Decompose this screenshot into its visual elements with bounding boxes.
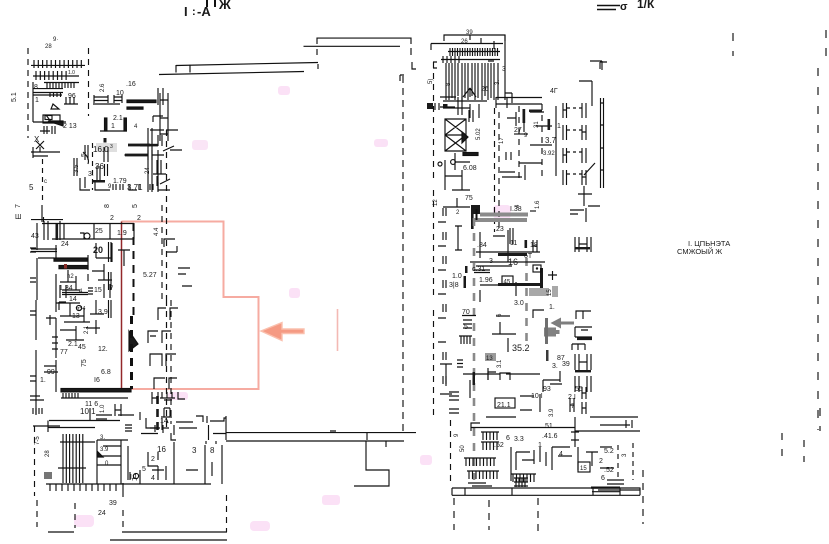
svg-text:І6: І6 [94, 377, 100, 384]
wall line [33, 121, 66, 123]
door wedge solid [48, 121, 63, 126]
svg-text:75: 75 [465, 195, 473, 202]
corridor right-side brackets [146, 239, 192, 430]
svg-text:8: 8 [210, 446, 215, 455]
svg-text:9·: 9· [53, 37, 58, 43]
left edge details mid [31, 141, 63, 240]
room partitions [470, 230, 545, 266]
svg-text:16: 16 [508, 257, 518, 267]
east window symbols [563, 103, 586, 118]
door frame marks above [160, 392, 185, 399]
black door wedge big [129, 331, 138, 351]
svg-text:39: 39 [562, 361, 570, 368]
svg-text:3.9: 3.9 [549, 408, 555, 417]
svg-text:2.6: 2.6 [100, 83, 106, 92]
window double lines on left [30, 248, 36, 282]
svg-text:75: 75 [81, 359, 88, 367]
svg-text:2: 2 [599, 458, 603, 465]
svg-text:6: 6 [601, 475, 605, 482]
left window ticks [45, 472, 51, 479]
top walls [590, 417, 638, 428]
top row walls [440, 97, 473, 122]
svg-text:39: 39 [466, 30, 473, 36]
thick dashed wall [130, 316, 133, 389]
svg-text:1: 1 [35, 97, 39, 104]
right plan 35.2 hall [457, 343, 591, 417]
svg-text:70: 70 [462, 309, 470, 316]
svg-text:5): 5) [428, 79, 434, 84]
svg-text:12.: 12. [98, 346, 108, 353]
svg-text:.16: .16 [126, 81, 136, 88]
svg-text:55: 55 [575, 386, 583, 393]
svg-text:25: 25 [95, 228, 103, 235]
far right wall [579, 61, 602, 106]
svg-text:28: 28 [45, 44, 52, 50]
right plan gray dashed walls [474, 218, 527, 480]
svg-text:1: 1 [538, 442, 542, 449]
title right plan [597, 0, 655, 13]
svg-text:3.92: 3.92 [543, 151, 555, 157]
small comb [459, 336, 472, 344]
svg-text:3.71: 3.71 [127, 183, 143, 192]
right plan middle rooms [449, 206, 592, 352]
svg-text:1: 1 [557, 123, 561, 130]
svg-text:7-5: 7-5 [35, 436, 41, 445]
svg-text:3.9: 3.9 [100, 447, 109, 453]
svg-text:-А: -А [197, 4, 211, 19]
svg-text:1.9: 1.9 [117, 230, 127, 237]
window symbols right side [160, 93, 168, 141]
hatch band [61, 393, 128, 398]
svg-text:77: 77 [60, 349, 68, 356]
thick bottom bar [61, 389, 131, 392]
svg-text:3.1: 3.1 [497, 359, 503, 368]
svg-text:20: 20 [93, 245, 103, 255]
walls below stairs [443, 97, 542, 118]
svg-text:16.0: 16.0 [93, 145, 109, 154]
thick wall bar A [54, 258, 87, 261]
dashed boundary left [27, 48, 29, 138]
bracket row thick [92, 180, 105, 183]
svg-text:16: 16 [157, 445, 166, 454]
svg-text::: : [192, 6, 196, 18]
dashed boundary right [88, 48, 90, 116]
svg-text:8: 8 [34, 84, 38, 91]
svg-text:10: 10 [116, 90, 124, 97]
svg-text:.51: .51 [543, 423, 553, 430]
svg-text:36: 36 [95, 162, 104, 171]
big room dashed right wall [402, 76, 404, 434]
svg-text:26: 26 [481, 86, 489, 93]
top wall of rooms [42, 223, 134, 225]
window double lines [30, 311, 36, 381]
step outline below bottom wall [354, 442, 389, 487]
svg-text:σ: σ [620, 1, 628, 13]
corridor dashed verticals [494, 108, 496, 232]
svg-text:c: c [44, 179, 47, 185]
gray blob below arrow [544, 328, 560, 337]
door swing [51, 104, 59, 109]
bottom small rooms [511, 447, 540, 481]
left boundary walls [37, 205, 42, 300]
left plan mid rooms band [30, 205, 160, 325]
svg-text:3: 3 [110, 144, 113, 150]
svg-text:5: 5 [29, 183, 34, 192]
red region left edge dark [121, 222, 123, 390]
upper row above wing [90, 396, 158, 432]
right plan upper rooms [433, 61, 604, 232]
svg-text:.52: .52 [494, 442, 504, 449]
door posts [115, 404, 121, 416]
svg-text:7: 7 [571, 403, 575, 410]
left plan center room labels [15, 138, 174, 222]
svg-text:26: 26 [461, 39, 468, 45]
svg-text:І: І [184, 4, 188, 19]
svg-text:5.2: 5.2 [604, 448, 614, 455]
svg-text:1.0: 1.0 [100, 404, 106, 413]
stair comb narrow [441, 48, 500, 60]
svg-text:1: 1 [111, 123, 115, 130]
svg-text:50: 50 [460, 445, 466, 452]
svg-text:15: 15 [580, 466, 587, 472]
svg-text:35.2: 35.2 [512, 343, 530, 353]
dashed west boundary [34, 426, 36, 496]
corner marks right of big room [400, 62, 416, 81]
bottom outline [37, 495, 227, 532]
east windows [575, 237, 591, 252]
dense comb above bar [514, 478, 528, 487]
svg-text:2 13: 2 13 [63, 123, 77, 130]
big room bottom wall ticks [366, 433, 368, 440]
svg-text:21.1: 21.1 [497, 402, 511, 409]
svg-text:3|8: 3|8 [449, 282, 459, 289]
stair comb lower [33, 71, 79, 80]
entry black block [427, 103, 433, 109]
labels [40, 306, 111, 416]
svg-text:2: 2 [151, 456, 155, 463]
svg-text:3.5: 3.5 [74, 164, 80, 173]
right plan top bracket [427, 30, 558, 180]
svg-text:96: 96 [68, 93, 76, 100]
svg-text:4Г: 4Г [550, 88, 558, 95]
left edge combs [449, 392, 459, 413]
svg-text:ІД: ІД [130, 474, 137, 481]
tall stair hatch [58, 434, 95, 483]
svg-text:2.1: 2.1 [113, 115, 123, 122]
svg-text:1.96: 1.96 [479, 277, 493, 284]
svg-text:14: 14 [160, 418, 168, 425]
door ticks [60, 284, 110, 298]
svg-text:3.9: 3.9 [98, 309, 108, 316]
top rails [48, 421, 120, 433]
mid fittings [533, 310, 591, 319]
svg-text:3.: 3. [552, 363, 558, 370]
svg-text:с.31: с.31 [472, 266, 485, 273]
thick wall bar B [59, 266, 88, 269]
svg-text:1.0: 1.0 [452, 273, 462, 280]
big room top wall double line [176, 63, 318, 66]
top dimension bracket [317, 38, 411, 44]
svg-text:31: 31 [534, 121, 540, 128]
svg-text:1/К: 1/К [637, 0, 655, 11]
box with dot [533, 265, 541, 272]
svg-text:3: 3 [192, 446, 197, 455]
svg-text:ø54: ø54 [76, 306, 85, 312]
small partitions [56, 245, 80, 296]
svg-text:3.: 3. [88, 171, 94, 178]
faint red vertical line [337, 309, 339, 351]
svg-text:1.34: 1.34 [59, 285, 73, 292]
underlined 27 [514, 133, 528, 135]
gray highlight behind 16.0 [96, 143, 117, 152]
svg-text:5.: 5. [81, 151, 88, 157]
svg-text:8: 8 [104, 204, 111, 208]
gray fill patches [529, 288, 549, 296]
svg-text:43: 43 [31, 233, 39, 240]
rooms right of stairs [97, 440, 128, 484]
stair comb upper [31, 60, 85, 68]
svg-text:Ш: Ш [15, 214, 21, 221]
convergence diagonals [463, 88, 476, 97]
right plan bottom rooms [449, 392, 643, 532]
labels [31, 227, 160, 303]
east wall double line [601, 98, 604, 188]
right plan gray sill bars [471, 205, 536, 229]
right edge wall [505, 35, 512, 103]
svg-text:Ж: Ж [218, 0, 231, 12]
svg-text:3.3: 3.3 [514, 436, 524, 443]
svg-text:2.І: 2.І [568, 394, 576, 401]
stair rails [44, 82, 79, 84]
svg-text:3.7: 3.7 [545, 136, 557, 145]
svg-text:3.0: 3.0 [514, 300, 524, 307]
small box 45 [502, 276, 513, 285]
ground long bar [452, 488, 640, 496]
mini stair [64, 97, 78, 104]
right margin dashes [600, 30, 826, 462]
stair combs [481, 432, 499, 440]
svg-text:1.: 1. [549, 304, 555, 311]
salmon arrow [261, 323, 304, 341]
svg-text:13: 13 [486, 356, 493, 362]
svg-text:14: 14 [69, 296, 77, 303]
svg-text:1.6: 1.6 [535, 200, 541, 209]
svg-text:17: 17 [499, 137, 505, 144]
svg-text:6Т: 6Т [524, 253, 533, 260]
wall segments [176, 416, 226, 423]
svg-text:.52: .52 [604, 467, 614, 474]
pier column [109, 242, 112, 318]
title left plan [184, 0, 231, 19]
svg-text:2.1: 2.1 [68, 341, 78, 348]
svg-text:.41.6: .41.6 [542, 433, 558, 440]
svg-text:18: 18 [530, 242, 538, 249]
pink smudges [74, 86, 511, 531]
svg-text:2.1: 2.1 [84, 325, 90, 334]
svg-text:2: 2 [137, 215, 141, 222]
svg-text:45: 45 [78, 344, 86, 351]
svg-text:24: 24 [145, 167, 151, 174]
red region outline [122, 222, 259, 390]
svg-text:6: 6 [506, 435, 510, 442]
tall stair flight [446, 63, 498, 100]
wc fixture [84, 233, 90, 239]
svg-text:.84: .84 [477, 242, 487, 249]
svg-text:11: 11 [510, 240, 517, 247]
small box with cross [43, 115, 60, 123]
svg-text:27: 27 [514, 127, 522, 134]
labels [454, 423, 628, 482]
svg-text:3.: 3. [495, 80, 501, 85]
boxed 211 [495, 398, 515, 408]
diagonals [158, 146, 174, 190]
small combs left [30, 396, 44, 414]
svg-text:24: 24 [98, 510, 106, 517]
thick partition bars [498, 253, 527, 256]
basement text [677, 239, 730, 256]
labels [486, 343, 583, 417]
bottom wing [35, 418, 228, 540]
svg-text:15: 15 [94, 287, 102, 294]
crossed box ventilation shafts [445, 119, 466, 151]
left plan top stair block [11, 37, 89, 144]
boundary [36, 296, 56, 415]
labels [433, 121, 561, 209]
svg-text:4: 4 [151, 475, 155, 482]
svg-text:h2: h2 [67, 274, 74, 280]
labels [428, 30, 558, 95]
bottom rail and comb [46, 483, 211, 485]
bottom wing top boundary [33, 392, 416, 446]
svg-text:28: 28 [45, 450, 51, 457]
svg-text:2: 2 [110, 215, 114, 222]
svg-text:3.: 3. [100, 435, 105, 441]
svg-text:1.79: 1.79 [113, 178, 127, 185]
left plan lower rooms band [30, 223, 138, 416]
svg-text:5: 5 [464, 324, 468, 331]
70 underline and bars [462, 316, 476, 329]
circle fixture [76, 305, 81, 310]
gray arrow right plan [551, 318, 575, 329]
svg-text:5.1: 5.1 [11, 92, 18, 102]
svg-text:5: 5 [142, 466, 146, 473]
below dashed [454, 470, 643, 532]
thick sill bars [128, 144, 150, 147]
bottom wall of room row [52, 238, 134, 240]
thick sill [463, 153, 478, 156]
partitions [56, 303, 90, 322]
svg-text:1.0: 1.0 [68, 70, 75, 76]
svg-text:10.І: 10.І [531, 393, 543, 400]
svg-text:4: 4 [559, 451, 563, 458]
svg-text:15: 15 [547, 289, 553, 296]
left plan corridor dashed wall [162, 130, 171, 428]
left plan window row upper middle [93, 81, 208, 192]
svg-text:93: 93 [543, 386, 551, 393]
svg-text:24: 24 [61, 241, 69, 248]
svg-text:4.4: 4.4 [154, 227, 160, 236]
plus mark [548, 271, 557, 280]
svg-text:3: 3 [489, 258, 493, 265]
vertical pair symbols [74, 145, 108, 180]
room partitions [507, 106, 556, 176]
svg-text:23: 23 [496, 226, 504, 233]
gray dashed wall segment [545, 318, 548, 344]
svg-text:5: 5 [132, 204, 139, 208]
svg-text:10.1: 10.1 [80, 407, 96, 416]
room divider walls [64, 224, 134, 240]
svg-text:І.38: І.38 [510, 206, 522, 213]
right plan west dashed edge lower [434, 190, 463, 420]
pi door frame [161, 408, 172, 423]
svg-text:5.02: 5.02 [476, 128, 482, 140]
svg-text:6.8: 6.8 [101, 369, 111, 376]
svg-text:6.08: 6.08 [463, 165, 477, 172]
svg-text:39: 39 [109, 500, 117, 507]
svg-text:СМЖОЫЙ Ж: СМЖОЫЙ Ж [677, 247, 722, 256]
labels [449, 206, 555, 331]
svg-text:1.: 1. [40, 377, 46, 384]
svg-text:13: 13 [72, 313, 80, 320]
west dashed boundary [433, 62, 435, 180]
svg-text:3: 3 [502, 66, 506, 73]
svg-text:7: 7 [15, 204, 22, 208]
svg-text:5.27: 5.27 [143, 272, 157, 279]
labels [35, 418, 215, 517]
long double wall to right wing [226, 432, 416, 434]
labels [11, 37, 77, 144]
svg-text:99: 99 [47, 369, 55, 376]
